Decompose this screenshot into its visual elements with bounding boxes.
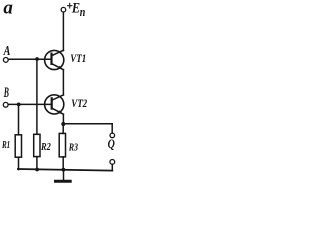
svg-text:R3: R3 xyxy=(68,142,78,154)
transistor VT1 xyxy=(45,50,64,69)
svg-text:а: а xyxy=(3,0,13,18)
wire: A to base of VT1 xyxy=(8,58,51,60)
wire: B to base of VT2 xyxy=(8,103,51,105)
node: R2 / rail junction xyxy=(35,168,39,172)
node: junction A wire / R2 xyxy=(35,57,39,61)
wire: output node to Q terminals xyxy=(63,123,112,125)
svg-text:R2: R2 xyxy=(40,141,51,153)
svg-text:VT2: VT2 xyxy=(71,98,87,110)
svg-text:B: B xyxy=(3,85,9,101)
svg-text:VT1: VT1 xyxy=(70,53,86,65)
output terminal Q bottom xyxy=(110,160,115,165)
wire: collector of VT1 up to +En xyxy=(62,12,64,50)
wire: ground rail xyxy=(18,169,112,171)
wire: emitter VT2 down to output node xyxy=(62,114,64,124)
transistor VT2 xyxy=(45,95,64,114)
node: junction B wire / R1 xyxy=(17,103,21,107)
resistor R2 xyxy=(34,59,40,170)
output terminal Q top xyxy=(110,133,115,138)
resistor R3 xyxy=(59,124,65,170)
wire: emitter VT1 to collector VT2 xyxy=(62,70,64,95)
svg-text:R1: R1 xyxy=(1,140,10,151)
power terminal +En xyxy=(61,7,66,12)
svg-text:A: A xyxy=(3,44,11,59)
node: R3 / rail junction xyxy=(62,168,66,172)
svg-text:Q: Q xyxy=(108,137,115,151)
svg-text:n: n xyxy=(80,4,86,19)
ground xyxy=(56,170,71,181)
wire: Q bottom terminal to ground rail xyxy=(111,164,113,170)
resistor R1 xyxy=(15,104,21,169)
node: emitter/R3/output junction xyxy=(61,122,65,126)
